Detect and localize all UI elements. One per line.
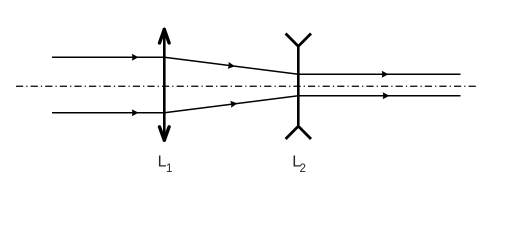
optical axis (dash-dot centerline) [16, 85, 476, 87]
lens L1 (converging lens, vertical double-headed arrow) [160, 29, 170, 140]
ray: bottom incoming (left to lens L1) [52, 109, 164, 116]
ray: top incoming (left to lens L1) [52, 54, 164, 61]
ray: bottom outgoing (lens L2 to right) [298, 92, 460, 99]
ray: top converging (lens L1 to lens L2) [164, 57, 298, 74]
ray: top outgoing (lens L2 to right) [298, 71, 460, 78]
ray: bottom converging (lens L1 to lens L2) [164, 96, 298, 113]
lens L2 (diverging lens, stem with outward forks) [286, 34, 311, 140]
